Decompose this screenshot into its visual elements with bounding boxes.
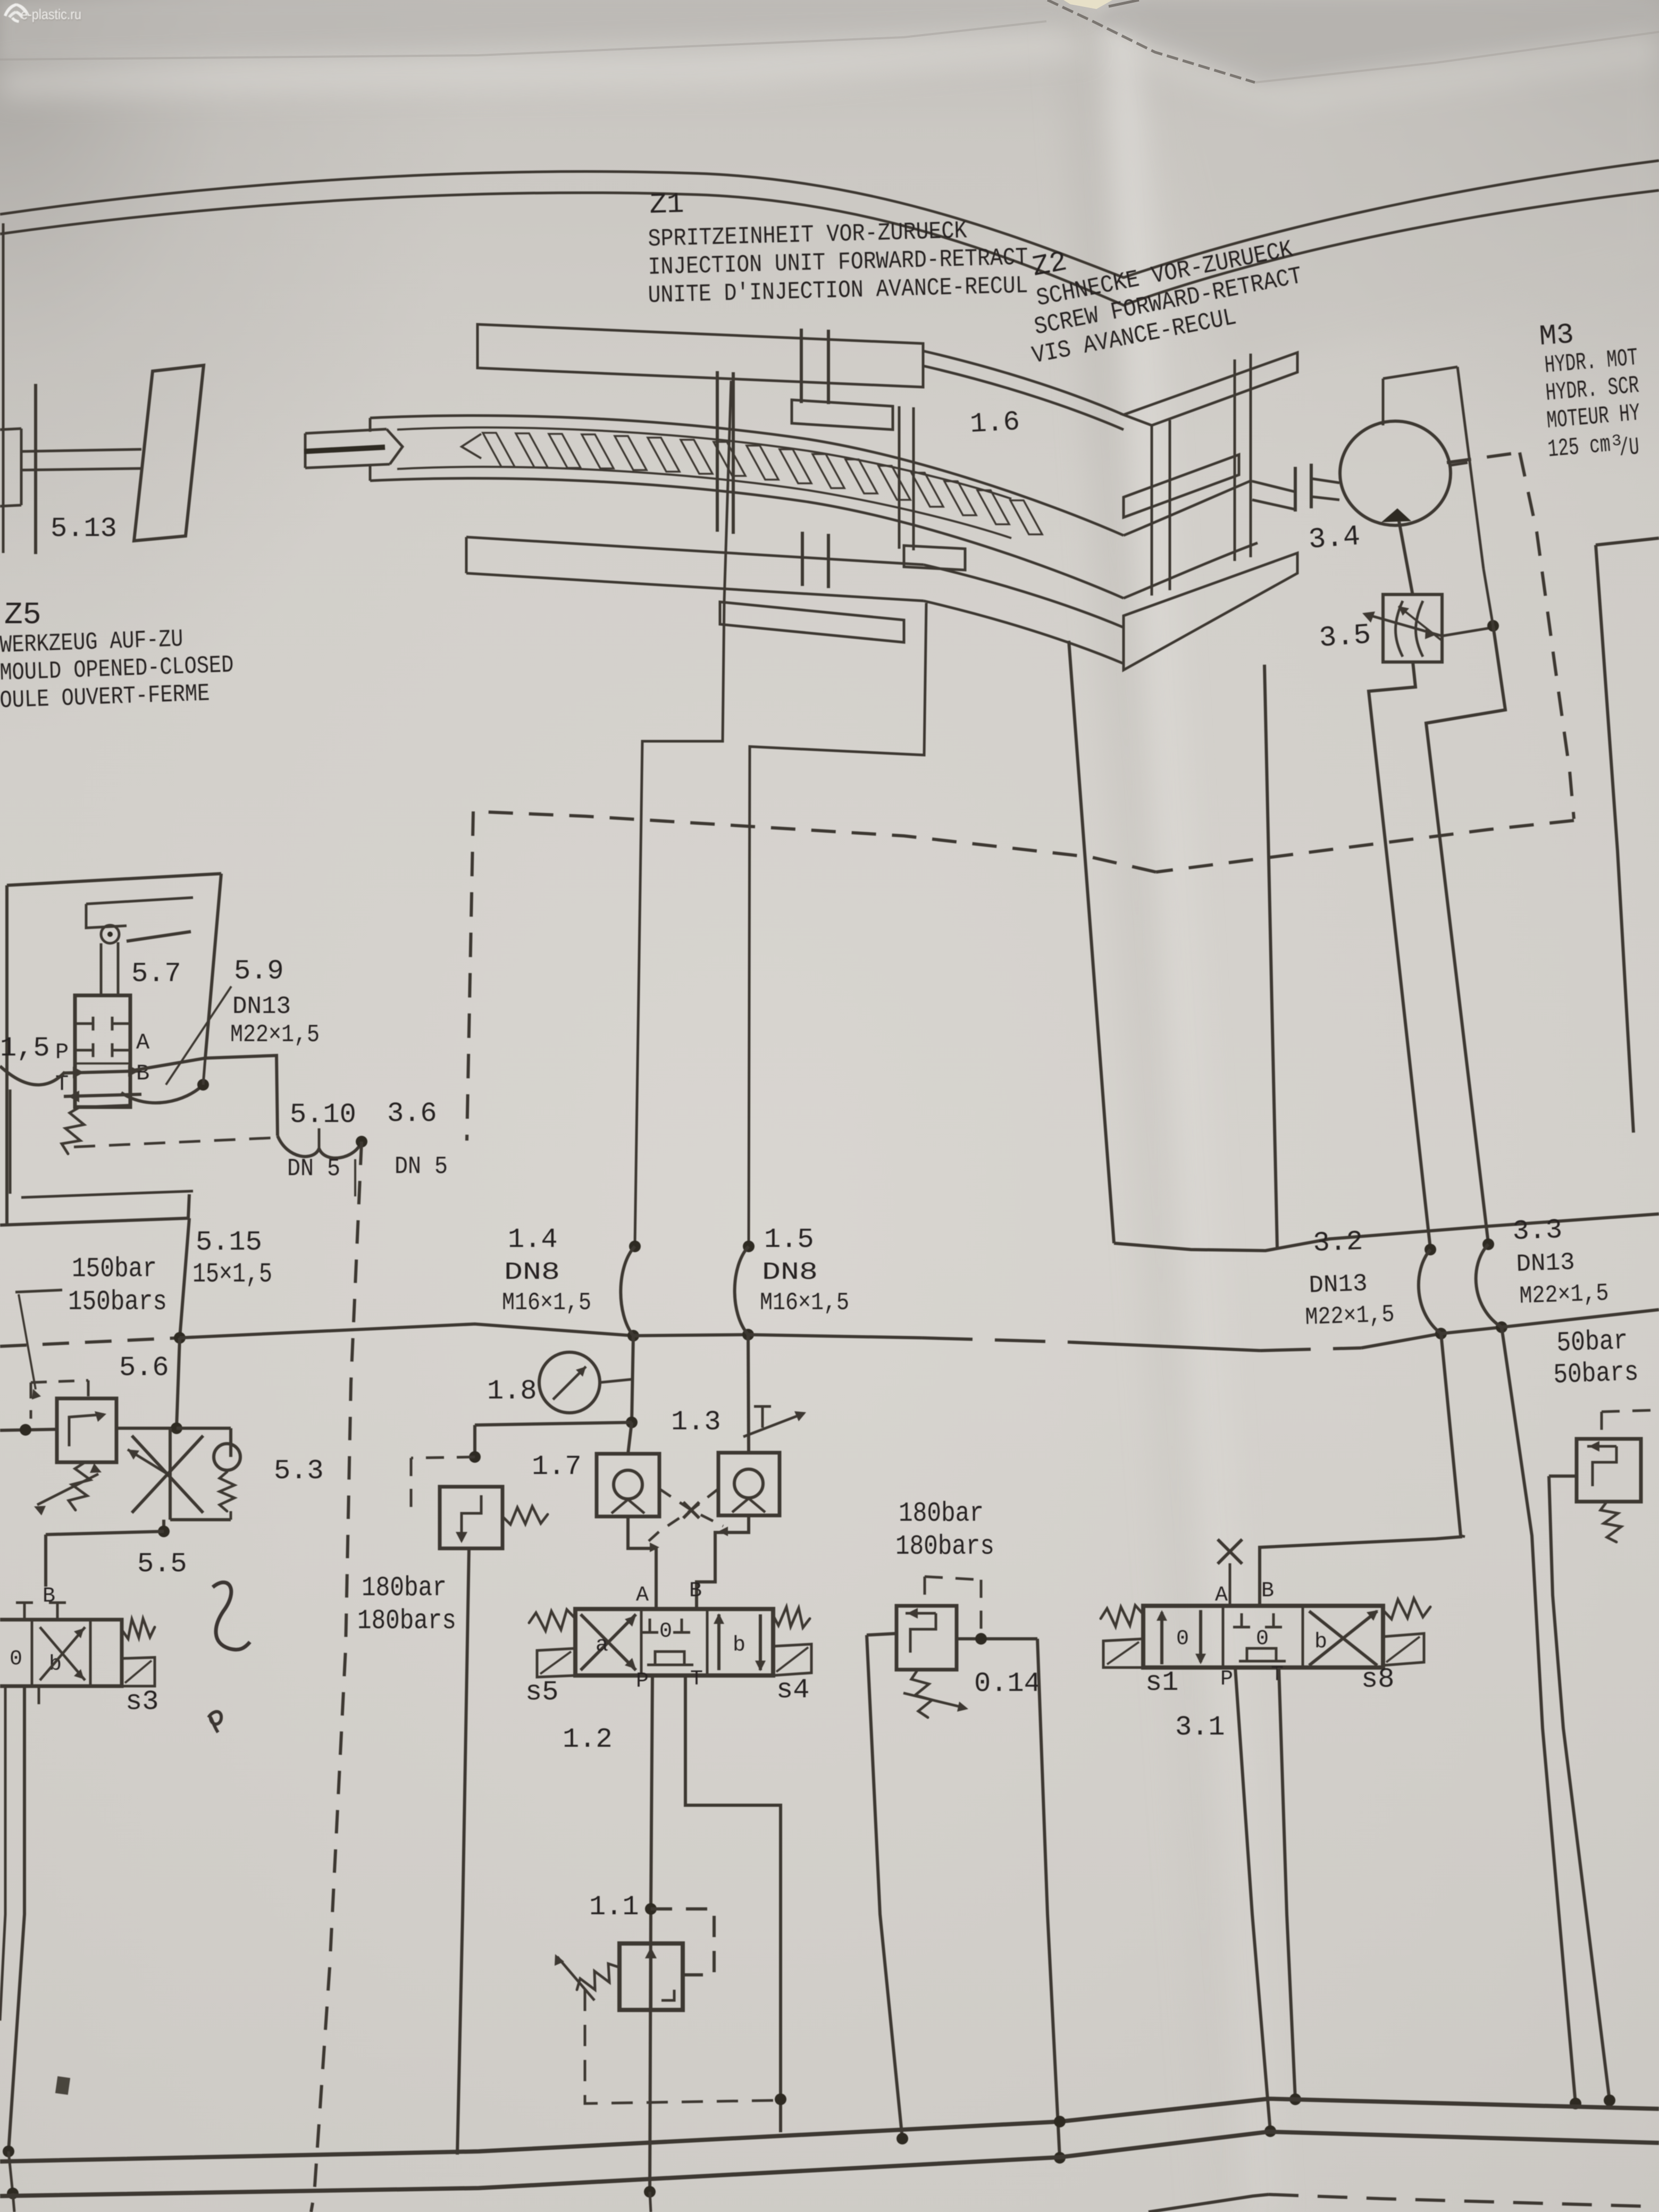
mould manifold block outline <box>7 874 221 885</box>
svg-text:1.3: 1.3 <box>671 1406 721 1438</box>
svg-text:5.13: 5.13 <box>51 513 117 544</box>
svg-text:50bar: 50bar <box>1556 1325 1628 1359</box>
svg-text:150bar: 150bar <box>72 1253 157 1285</box>
dashed pilot line 5.7 <box>74 1138 271 1147</box>
svg-text:M16×1,5: M16×1,5 <box>502 1289 591 1317</box>
svg-text:1.5: 1.5 <box>764 1224 814 1255</box>
svg-text:3.2: 3.2 <box>1312 1226 1363 1259</box>
fold crease shadow (left of crease) <box>1055 0 1244 2212</box>
svg-text:5.5: 5.5 <box>137 1548 187 1580</box>
svg-text:1.6: 1.6 <box>969 406 1021 440</box>
svg-text:150bars: 150bars <box>68 1286 167 1318</box>
svg-text:B: B <box>43 1585 55 1608</box>
barrel Z1 <box>370 416 1124 535</box>
svg-text:P: P <box>1220 1668 1233 1691</box>
slight darker wash right of crease top <box>1138 0 1659 372</box>
injection nozzle <box>305 429 387 433</box>
svg-text:DN 5: DN 5 <box>395 1153 448 1180</box>
horizontal pipe to right edge <box>1114 1214 1659 1251</box>
pipe to coupling 1.4 <box>635 381 731 1244</box>
hose into P port <box>0 1066 65 1085</box>
couplings 3.2 and 3.3 <box>1425 1244 1436 1255</box>
svg-text:Z2: Z2 <box>1030 246 1070 284</box>
svg-text:DN13: DN13 <box>1516 1249 1576 1278</box>
svg-text:DN13: DN13 <box>232 993 291 1020</box>
svg-text:5.15: 5.15 <box>196 1227 262 1258</box>
svg-text:B: B <box>689 1579 702 1603</box>
svg-text:1.8: 1.8 <box>487 1376 537 1407</box>
svg-text:s8: s8 <box>1361 1664 1394 1695</box>
Z2 cylinder bars right of fold <box>1124 353 1297 425</box>
couplings 1.4 and 1.5 <box>629 1241 641 1252</box>
svg-text:b: b <box>733 1633 745 1657</box>
dashed drain line from 3.6 <box>311 1142 362 2212</box>
line 3.4 <box>1399 521 1413 596</box>
svg-text:0: 0 <box>659 1620 672 1644</box>
svg-text:3.3: 3.3 <box>1512 1214 1563 1247</box>
svg-text:b: b <box>1314 1630 1327 1654</box>
svg-text:3.5: 3.5 <box>1318 619 1372 655</box>
svg-text:0: 0 <box>10 1647 22 1671</box>
svg-text:s1: s1 <box>1145 1667 1178 1698</box>
main pressure bus line <box>0 1338 180 1346</box>
svg-text:1.1: 1.1 <box>589 1891 639 1923</box>
svg-text:1,5: 1,5 <box>0 1033 50 1064</box>
svg-text:P: P <box>55 1040 69 1065</box>
svg-text:B: B <box>136 1061 149 1086</box>
svg-text:s4: s4 <box>776 1674 809 1706</box>
svg-text:a: a <box>596 1633 608 1657</box>
svg-text:M22×1,5: M22×1,5 <box>1305 1301 1395 1331</box>
drain line of 1.7 <box>457 1548 469 2155</box>
cylinder wall curves <box>923 351 1124 415</box>
top rail bar <box>477 324 923 387</box>
cream wedge of table visible in fold notch <box>1063 0 1112 9</box>
svg-text:T: T <box>1271 1663 1284 1687</box>
svg-text:5.10: 5.10 <box>290 1099 356 1130</box>
valve 5.7 <box>75 995 130 1107</box>
spring of valve 5.7 <box>62 1107 84 1154</box>
svg-text:0: 0 <box>1176 1627 1189 1651</box>
svg-text:M22×1,5: M22×1,5 <box>1519 1279 1610 1310</box>
fold crease highlight <box>1102 0 1280 2212</box>
wire 3.5 to coupling 3.2 <box>1369 662 1430 1249</box>
svg-text:DN8: DN8 <box>504 1259 560 1286</box>
svg-text:180bar: 180bar <box>362 1572 447 1604</box>
svg-text:3.1: 3.1 <box>1175 1712 1225 1743</box>
pipe 5.15 <box>180 1218 189 1338</box>
s3 tank lines <box>9 1686 24 2151</box>
svg-text:50bars: 50bars <box>1553 1356 1639 1391</box>
svg-text:180bar: 180bar <box>899 1498 984 1529</box>
node gauge junction <box>632 1336 633 1422</box>
svg-text:5.3: 5.3 <box>274 1455 324 1487</box>
svg-text:1.4: 1.4 <box>508 1224 558 1255</box>
directional valve s3 <box>0 1620 122 1686</box>
hydraulic motor M3 <box>1340 421 1451 525</box>
ink blob <box>55 2076 70 2095</box>
svg-text:M3: M3 <box>1538 319 1575 354</box>
right edge block <box>1596 538 1659 545</box>
svg-text:Z5: Z5 <box>4 598 41 633</box>
svg-text:/U: /U <box>1618 433 1640 463</box>
svg-text:5.6: 5.6 <box>119 1352 169 1384</box>
dashed pilot of 1.7 <box>411 1457 475 1458</box>
P and T lines of 3.1 <box>1235 1668 1270 2131</box>
svg-text:T: T <box>690 1668 703 1691</box>
curl highlight under edge <box>0 31 1098 98</box>
wires to 50bar valve <box>1502 1327 1576 2104</box>
line 5.5 <box>162 1520 165 1534</box>
svg-text:B: B <box>1261 1579 1274 1603</box>
svg-text:e-plastic.ru: e-plastic.ru <box>21 6 81 22</box>
wire motor to coupling 3.3 <box>1426 626 1505 1243</box>
directional valve 3.1 s1/s8 <box>1143 1606 1383 1668</box>
svg-text:M16×1,5: M16×1,5 <box>760 1289 849 1317</box>
svg-text:s3: s3 <box>125 1686 158 1717</box>
pressure reducing valve 5.6 <box>177 1338 180 1428</box>
center column pair <box>716 371 719 532</box>
motor frame <box>1383 367 1457 379</box>
lower rail bar <box>466 537 924 565</box>
svg-text:1.7: 1.7 <box>532 1451 582 1482</box>
svg-text:A: A <box>636 1583 649 1607</box>
lever actuator of valve 5.7 <box>86 898 193 904</box>
darker band above top paper edge <box>0 0 1090 61</box>
svg-text:Z1: Z1 <box>649 188 684 222</box>
svg-text:s5: s5 <box>525 1677 558 1708</box>
svg-text:A: A <box>136 1030 150 1055</box>
svg-text:180bars: 180bars <box>357 1605 456 1637</box>
svg-text:M22×1,5: M22×1,5 <box>230 1021 320 1049</box>
bottom partial line <box>1149 2194 1269 2212</box>
flow control valve 3.5 <box>1383 594 1442 662</box>
svg-text:3.6: 3.6 <box>387 1098 437 1129</box>
motor shaft coupling <box>1252 481 1295 492</box>
P and T lines of 1.2 <box>650 1675 652 2192</box>
svg-text:DN 5: DN 5 <box>287 1155 340 1183</box>
svg-text:5.7: 5.7 <box>131 958 181 990</box>
svg-text:15×1,5: 15×1,5 <box>192 1259 272 1290</box>
directional valve 1.2 s5/s4 <box>575 1609 773 1675</box>
svg-text:0.14: 0.14 <box>974 1668 1041 1699</box>
svg-text:A: A <box>1215 1583 1228 1607</box>
wire 3.5 to junction <box>1442 627 1493 636</box>
svg-text:1.2: 1.2 <box>563 1724 613 1755</box>
svg-text:180bars: 180bars <box>895 1531 994 1562</box>
hose 5.9 <box>121 1085 203 1103</box>
sheet border frame <box>0 161 1659 278</box>
screw flights <box>483 433 515 467</box>
watermark e-plastic.ru <box>0 0 1 1</box>
bottom tank bus lines <box>0 2099 1659 2161</box>
wire A to coupling 5.10 <box>130 1055 278 1136</box>
svg-text:DN13: DN13 <box>1309 1270 1368 1300</box>
handwritten pen marks <box>213 1582 250 1649</box>
svg-text:5.9: 5.9 <box>234 956 284 987</box>
clamp cylinder 5.13 (mould Z5) <box>34 384 37 554</box>
spring of 1.7 <box>502 1506 548 1524</box>
machine leg pipes <box>1069 641 1114 1243</box>
tie rods <box>898 406 901 549</box>
dark paper edge lines at notch <box>1048 0 1255 82</box>
svg-text:P: P <box>636 1670 649 1694</box>
dashed drain line from M3 <box>1447 453 1520 463</box>
svg-text:125 cm: 125 cm <box>1547 431 1612 464</box>
svg-text:3.4: 3.4 <box>1308 521 1361 557</box>
throttle check valve 5.3 <box>177 1427 231 1430</box>
svg-text:DN8: DN8 <box>762 1259 818 1286</box>
